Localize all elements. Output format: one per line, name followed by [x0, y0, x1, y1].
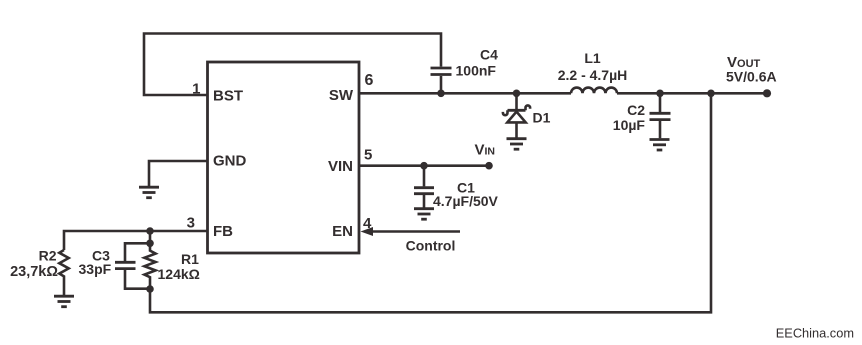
svg-text:Control: Control [406, 237, 456, 253]
node C4/SW junction [437, 90, 445, 98]
wire EN control input [371, 230, 460, 233]
svg-text:SW: SW [329, 87, 354, 104]
svg-text:4.7µF/50V: 4.7µF/50V [433, 193, 499, 209]
svg-text:EEChina.com: EEChina.com [776, 326, 854, 341]
wire VIN pin [359, 164, 489, 167]
svg-text:FB: FB [213, 223, 233, 240]
svg-text:C4: C4 [480, 47, 498, 63]
ground (GND pin) [139, 187, 159, 198]
node VOUT terminal [763, 89, 771, 97]
node feedback junction [707, 90, 715, 98]
wire BST to top loop [144, 34, 441, 96]
node VIN terminal [485, 162, 493, 170]
svg-text:R2: R2 [39, 248, 57, 264]
svg-text:2.2 - 4.7µH: 2.2 - 4.7µH [558, 67, 628, 83]
wire L1 to VOUT [617, 92, 767, 95]
ground (R2) [54, 296, 74, 307]
svg-text:1: 1 [192, 81, 200, 98]
svg-text:23,7kΩ: 23,7kΩ [10, 264, 58, 280]
wire feedback loop right/bottom [150, 93, 711, 312]
svg-text:5V/0.6A: 5V/0.6A [726, 68, 777, 84]
svg-text:10µF: 10µF [613, 117, 646, 133]
wire FB pin [64, 231, 208, 250]
capacitor C2 [650, 93, 671, 138]
inductor L1 [571, 88, 617, 94]
svg-text:6: 6 [365, 72, 374, 89]
svg-text:3: 3 [187, 215, 195, 232]
node D1 junction [513, 90, 521, 98]
resistor R2 [59, 250, 68, 295]
wire FB junction down [149, 231, 152, 243]
node R1/C3 top junction [146, 240, 154, 248]
IC U1 (regulator body) [208, 62, 360, 253]
capacitor C1 [414, 166, 434, 208]
ground (C2) [650, 140, 670, 151]
capacitor C3 [115, 262, 150, 288]
svg-text:33pF: 33pF [79, 261, 112, 277]
ground (C1) [414, 209, 434, 220]
svg-text:100nF: 100nF [456, 62, 497, 78]
node FB junction [146, 227, 154, 235]
node C1 junction [420, 162, 428, 170]
svg-text:GND: GND [213, 153, 247, 170]
svg-text:L1: L1 [584, 50, 601, 66]
ground (D1) [507, 139, 527, 150]
svg-text:124kΩ: 124kΩ [158, 266, 200, 282]
svg-text:VIN: VIN [328, 158, 353, 175]
svg-text:EN: EN [332, 223, 353, 240]
svg-text:4: 4 [363, 215, 372, 232]
wire C3 branch top [125, 243, 150, 261]
diode D1 (Schottky) [503, 93, 530, 137]
wire SW line [359, 92, 571, 95]
wire GND pin [149, 161, 208, 186]
node C2 junction [656, 90, 664, 98]
svg-text:C2: C2 [627, 102, 645, 118]
svg-text:D1: D1 [533, 109, 551, 125]
capacitor C4 [431, 68, 452, 93]
EN arrowhead [361, 227, 374, 236]
node R1/C3 bottom junction [146, 285, 154, 293]
svg-text:BST: BST [213, 88, 243, 105]
svg-text:5: 5 [364, 147, 372, 164]
svg-text:R1: R1 [181, 251, 199, 267]
resistor R1 [144, 243, 155, 289]
